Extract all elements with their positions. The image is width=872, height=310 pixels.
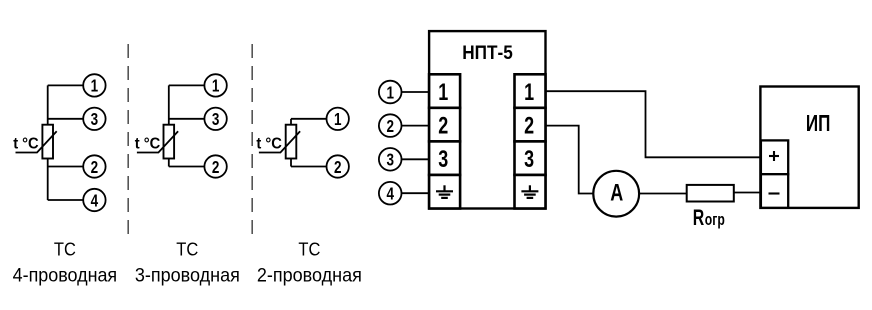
right terminal square 4 (ground) (515, 175, 546, 209)
wire: to pin 1 (291, 118, 327, 120)
input node circle 4 (379, 182, 402, 205)
IP minus terminal square (761, 174, 788, 208)
left terminal square 1 (429, 74, 460, 108)
node circle 1 (327, 108, 349, 130)
svg-text:3-проводная: 3-проводная (135, 265, 240, 286)
wire: to pin 2 (169, 166, 205, 168)
svg-text:3: 3 (212, 109, 220, 129)
RTD strike line (137, 131, 178, 152)
wire: to pin 4 (48, 199, 84, 201)
svg-text:1: 1 (212, 76, 220, 96)
svg-text:1: 1 (438, 79, 448, 106)
right terminal square 1 (515, 74, 546, 108)
plus sign (769, 151, 779, 161)
wire: Rogr to IP minus (734, 192, 761, 194)
wire: to pin 2 (291, 166, 327, 168)
ammeter PA1 (593, 171, 639, 217)
svg-text:2-проводная: 2-проводная (257, 265, 362, 286)
svg-text:ИП: ИП (806, 110, 831, 136)
wire: vertical riser above RK1 (47, 85, 49, 124)
divider dashed line 1 (127, 44, 129, 240)
wire: vertical drop below RK3 (290, 159, 292, 167)
input node circle 3 (379, 148, 402, 171)
node circle 2 (83, 155, 105, 177)
svg-text:2: 2 (212, 157, 220, 177)
IP plus terminal square (761, 140, 788, 174)
wire: circle1 to terminal 1 (402, 91, 430, 93)
wire: to pin 2 (48, 166, 84, 168)
node circle 1 (83, 74, 105, 96)
wire: vertical drop below RK1 to pin4 level (47, 159, 49, 201)
svg-text:ТС: ТС (54, 239, 76, 259)
wire: circle2 to terminal 2 (402, 125, 430, 127)
node circle 3 (83, 108, 105, 130)
node circle 2 (327, 155, 349, 177)
input node circle 1 (379, 81, 402, 104)
svg-text:R: R (693, 205, 705, 230)
svg-text:2: 2 (524, 113, 534, 140)
node circle 4 (83, 189, 105, 211)
svg-text:2: 2 (91, 157, 99, 177)
svg-text:1: 1 (91, 76, 99, 96)
right terminal square 3 (515, 141, 546, 175)
svg-text:1: 1 (334, 109, 342, 129)
NPT-5 box U1 (429, 31, 545, 208)
left terminal square 2 (429, 108, 460, 142)
RTD strike line (259, 131, 300, 152)
wire: NPT-5 out 1 to IP plus (546, 91, 761, 157)
svg-text:3: 3 (438, 146, 448, 173)
IP box (power supply) (760, 87, 858, 208)
divider dashed line 2 (251, 44, 253, 240)
wire: circle3 to terminal 3 (402, 158, 430, 160)
svg-text:2: 2 (386, 116, 394, 136)
svg-text:2: 2 (438, 113, 448, 140)
svg-text:3: 3 (91, 109, 99, 129)
wire: circle4 to ground terminal (402, 192, 430, 194)
svg-text:НПТ-5: НПТ-5 (462, 42, 513, 64)
RTD strike line (16, 131, 57, 152)
RTD sensor body (3-wire) (164, 125, 175, 159)
svg-text:3: 3 (386, 150, 394, 170)
node circle 2 (204, 155, 226, 177)
node circle 3 (204, 108, 226, 130)
wire: to pin 3 (48, 118, 84, 120)
wire: to pin 1 (169, 84, 205, 86)
resistor Rogr (687, 185, 734, 202)
wire: NPT-5 out 2 to ammeter (546, 126, 594, 194)
left terminal square 3 (429, 141, 460, 175)
svg-text:огр: огр (705, 211, 725, 229)
svg-text:3: 3 (524, 146, 534, 173)
RTD sensor body (2-wire) (286, 125, 297, 159)
svg-text:t °C: t °C (13, 135, 39, 152)
input node circle 2 (379, 114, 402, 137)
wire: vertical drop below RK2 (168, 159, 170, 167)
svg-text:4-проводная: 4-проводная (13, 265, 118, 286)
minus sign (769, 192, 780, 194)
svg-text:A: A (610, 180, 623, 207)
svg-text:4: 4 (91, 190, 99, 210)
svg-text:ТС: ТС (176, 239, 198, 259)
left ground symbol (436, 185, 453, 198)
svg-text:ТС: ТС (298, 239, 320, 259)
svg-text:4: 4 (386, 184, 394, 204)
right terminal square 2 (515, 108, 546, 142)
svg-text:t °C: t °C (256, 135, 282, 152)
node circle 1 (204, 74, 226, 96)
wire: vertical riser above RK2 (168, 85, 170, 124)
svg-text:2: 2 (334, 157, 342, 177)
RTD sensor body (4-wire) (42, 125, 53, 159)
svg-text:1: 1 (386, 82, 394, 102)
wire: to pin 1 (48, 84, 84, 86)
svg-text:t °C: t °C (135, 135, 161, 152)
right ground symbol (521, 185, 538, 198)
left terminal square 4 (ground) (429, 175, 460, 209)
wire: vertical riser above RK3 (290, 119, 292, 125)
svg-text:1: 1 (524, 79, 534, 106)
wire: to pin 3 (169, 118, 205, 120)
wire: ammeter to Rogr (639, 193, 686, 195)
